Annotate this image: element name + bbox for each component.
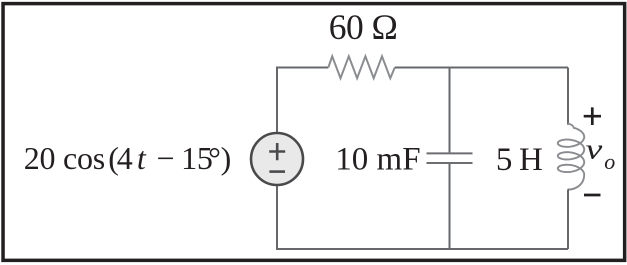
capacitor C 10 mF plates (427, 153, 473, 163)
wire: middle branch upper (top node to capacitor top plate) (449, 68, 451, 153)
wire: left branch top (source to top-left corner) and top rail to resistor (277, 68, 328, 133)
svg-text:o: o (604, 149, 615, 174)
inductor L 5 H coil (558, 124, 584, 190)
svg-text:10 mF: 10 mF (335, 142, 420, 178)
voltage source VS circle (251, 133, 303, 185)
wire: right branch upper (top-right corner to inductor) (567, 68, 569, 125)
resistor R 60-ohm zigzag (328, 56, 395, 78)
svg-text:5 H: 5 H (496, 142, 542, 178)
svg-text:60 Ω: 60 Ω (329, 7, 398, 47)
wire: top rail from resistor to top-right corner (395, 67, 568, 69)
svg-text:20 cos (4t − 15°): 20 cos (4t − 15°) (24, 140, 231, 176)
polarity minus sign for v_o (584, 194, 601, 197)
wire: middle branch lower (capacitor bottom plate to bottom node) (449, 164, 451, 249)
wire: bottom rail and left branch lower (source bottom to bottom-left corner) (277, 186, 568, 249)
svg-text:v: v (586, 134, 603, 165)
voltage source minus sign (269, 170, 285, 173)
wire: right branch lower (inductor to bottom-right corner) (567, 190, 570, 249)
voltage source plus sign (269, 143, 285, 160)
polarity plus sign for v_o (584, 107, 601, 125)
